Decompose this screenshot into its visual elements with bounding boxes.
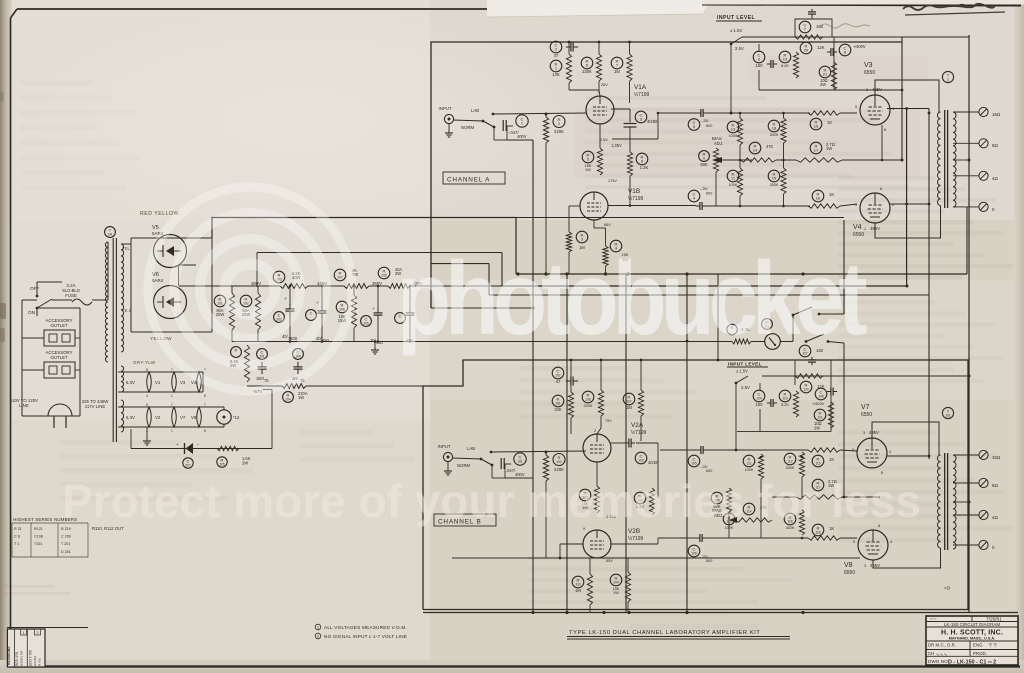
svg-text:7/26/61: 7/26/61 xyxy=(986,617,1002,622)
svg-text:1M: 1M xyxy=(614,69,620,74)
svg-text:106: 106 xyxy=(585,398,591,402)
svg-text:ECO # 766: ECO # 766 xyxy=(29,650,33,666)
svg-text:485V: 485V xyxy=(870,563,880,568)
cap C6 150 xyxy=(753,51,765,63)
bias rectifier diode xyxy=(184,443,186,454)
svg-text:208: 208 xyxy=(381,274,387,278)
svg-text:14: 14 xyxy=(753,148,758,153)
T101 secondary taps xyxy=(953,454,979,456)
V3 screen wire xyxy=(887,108,929,110)
resistor R7 1M xyxy=(611,57,623,69)
svg-text:206: 206 xyxy=(339,308,345,312)
resistor R102 220K xyxy=(543,455,548,481)
input level switch A xyxy=(730,43,733,46)
svg-text:102: 102 xyxy=(555,374,561,378)
resistor R204 220A 1W xyxy=(282,384,306,389)
V3 plate wire to T1 xyxy=(875,80,939,112)
svg-text:15: 15 xyxy=(814,124,819,129)
output terminal B 16 ohm xyxy=(979,450,988,459)
svg-text:600: 600 xyxy=(706,469,712,473)
svg-text:4/250: 4/250 xyxy=(647,119,658,124)
transformer top circled ref xyxy=(105,227,116,238)
output terminal 0 xyxy=(979,202,988,211)
capacitor C207 xyxy=(183,458,193,468)
bias network verticals xyxy=(739,145,741,168)
output terminal 8 ohm xyxy=(979,139,988,148)
svg-text:YE 2: YE 2 xyxy=(122,308,132,313)
svg-text:7: 7 xyxy=(171,403,173,407)
svg-text:2W: 2W xyxy=(242,461,248,466)
svg-text:75: 75 xyxy=(264,378,269,383)
vertical x718 link xyxy=(717,274,719,360)
svg-text:47K: 47K xyxy=(766,144,774,149)
B+ step down to cathode bus xyxy=(515,218,517,275)
svg-text:1K: 1K xyxy=(829,457,834,462)
svg-text:15: 15 xyxy=(772,176,777,181)
svg-text:85V: 85V xyxy=(604,223,611,227)
svg-text:Protect more of your memories: Protect more of your memories for less xyxy=(62,475,921,527)
svg-text:117V LINE: 117V LINE xyxy=(85,404,106,409)
heater ground xyxy=(146,427,148,438)
svg-text:INPUT LEVEL: INPUT LEVEL xyxy=(717,15,756,21)
resistor R21 10A 2W xyxy=(819,66,831,78)
svg-text:100K: 100K xyxy=(745,468,754,472)
svg-text:207: 207 xyxy=(185,464,191,468)
ground-meter bus y341 xyxy=(232,341,732,343)
svg-text:9: 9 xyxy=(583,527,585,531)
svg-text:202: 202 xyxy=(243,302,249,306)
svg-text:220K: 220K xyxy=(582,69,592,74)
resistor R? 1M B xyxy=(572,576,584,588)
coupling cap C105 .25/600 xyxy=(700,446,702,454)
tube V1B half 7199 xyxy=(580,192,608,220)
wire 445V xyxy=(308,285,344,287)
schematic sheet top edge line xyxy=(702,5,1021,6)
bias arrow wire xyxy=(716,159,752,161)
svg-text:R 219: R 219 xyxy=(61,527,71,531)
svg-text:1W: 1W xyxy=(585,168,591,172)
resistor R101 33K xyxy=(552,395,564,407)
svg-text:1M: 1M xyxy=(575,588,581,593)
svg-text:3: 3 xyxy=(863,431,865,435)
svg-text:OUTLET: OUTLET xyxy=(51,355,68,360)
resistor R20 12K xyxy=(795,35,823,39)
svg-text:19: 19 xyxy=(783,57,788,62)
svg-text:6550: 6550 xyxy=(853,232,864,238)
rectifier box wiring xyxy=(121,238,131,244)
resistor R208 40A 2W xyxy=(378,267,390,279)
svg-text:2: 2 xyxy=(594,429,596,433)
T101 center tap wire xyxy=(953,501,969,503)
svg-text:½7199: ½7199 xyxy=(628,195,644,202)
heater row 1 loop 6.3V V1 V3 V4 xyxy=(118,371,203,373)
revisions block xyxy=(7,627,88,629)
svg-text:4/250: 4/250 xyxy=(648,460,659,465)
svg-text:103: 103 xyxy=(638,459,644,463)
svg-text:7500: 7500 xyxy=(288,336,298,341)
resistor R118 330K xyxy=(784,513,796,525)
svg-text:116: 116 xyxy=(815,531,820,535)
svg-text:17: 17 xyxy=(814,148,819,153)
svg-text:ADJ.: ADJ. xyxy=(714,141,723,146)
bias wire -67V xyxy=(247,385,282,387)
svg-text:6550: 6550 xyxy=(844,570,855,576)
cathode bus y274 xyxy=(516,273,967,275)
svg-text:108: 108 xyxy=(818,395,824,399)
cap C7 150 xyxy=(799,21,811,33)
resistor R106 220K xyxy=(582,391,594,403)
bus wire to T1 zero tap xyxy=(966,207,968,274)
svg-text:450: 450 xyxy=(322,338,330,343)
svg-text:2W: 2W xyxy=(814,426,820,431)
svg-text:+⁄400V: +⁄400V xyxy=(853,44,866,49)
svg-text:2A: 2A xyxy=(108,232,113,237)
svg-text:115: 115 xyxy=(815,462,820,466)
svg-text:C 8: C 8 xyxy=(14,535,20,539)
pink stamp ghost xyxy=(575,108,920,178)
cap C8 +/400V xyxy=(830,48,832,56)
T1 center tap wire xyxy=(953,159,969,161)
grid stopper R116 1K V8 xyxy=(812,524,824,536)
svg-text:33K: 33K xyxy=(554,407,562,412)
svg-text:4: 4 xyxy=(889,450,891,454)
svg-text:7: 7 xyxy=(597,91,599,95)
left scan edge xyxy=(0,0,12,673)
input level wire B xyxy=(762,375,969,377)
capacitor C102 47 xyxy=(552,367,564,379)
heater lens V7 xyxy=(172,407,177,427)
T101 primary coil xyxy=(938,455,941,548)
svg-text:3: 3 xyxy=(866,88,868,92)
svg-text:8.2K: 8.2K xyxy=(781,403,789,407)
resistor R117 2.7A 1W xyxy=(812,479,824,491)
svg-text:16: 16 xyxy=(816,196,821,201)
svg-text:207: 207 xyxy=(337,276,343,280)
svg-text:V7: V7 xyxy=(861,404,870,411)
meter M xyxy=(765,334,781,350)
cap C104 150 xyxy=(753,390,765,402)
svg-text:1K: 1K xyxy=(829,192,834,197)
cap C108B +/400V xyxy=(830,388,832,396)
svg-text:485V: 485V xyxy=(872,87,882,92)
V3 cathode wire xyxy=(881,125,883,160)
svg-text:50K: 50K xyxy=(700,162,708,167)
resistor R104 15K 1W xyxy=(610,574,622,586)
svg-text:220K: 220K xyxy=(584,404,593,408)
svg-text:C108: C108 xyxy=(34,535,43,539)
svg-text:LINE: LINE xyxy=(19,403,29,408)
coupling cap C4 .25/600 xyxy=(699,202,701,210)
svg-text:+⁄400V: +⁄400V xyxy=(812,401,825,406)
B+ vertical x533 xyxy=(532,140,534,612)
svg-text:8Ω: 8Ω xyxy=(992,483,999,488)
resistor R18 330K xyxy=(768,120,780,132)
input level wire A xyxy=(742,36,969,38)
input level switch B xyxy=(735,382,738,385)
wire 330V to channel B feed xyxy=(410,285,567,287)
svg-text:〒〒: 〒〒 xyxy=(988,643,997,648)
V4 plate wire to T1 xyxy=(875,206,941,239)
svg-text:2: 2 xyxy=(36,631,38,635)
svg-text:101: 101 xyxy=(945,414,951,418)
note 2 no signal input xyxy=(315,633,321,639)
resistor R113 100K xyxy=(723,513,735,525)
resistor R2 220K xyxy=(543,117,548,143)
svg-text:101: 101 xyxy=(555,402,561,406)
svg-text:6.3V: 6.3V xyxy=(126,380,135,385)
svg-text:1M: 1M xyxy=(626,405,632,410)
svg-text:220K: 220K xyxy=(554,129,564,134)
svg-text:V2B: V2B xyxy=(628,528,640,535)
svg-text:V8: V8 xyxy=(844,562,853,569)
output terminal B 0 xyxy=(979,540,988,549)
bus step y252 to y286 xyxy=(257,252,502,254)
svg-text:REVISIONS: REVISIONS xyxy=(7,646,11,665)
heater lens V1 xyxy=(147,372,152,392)
bias pot R9 50K xyxy=(699,151,710,162)
svg-text:1.35V: 1.35V xyxy=(611,143,622,148)
svg-text:150: 150 xyxy=(755,402,763,407)
input level wiring A xyxy=(758,44,760,52)
svg-text:220K: 220K xyxy=(554,467,564,472)
svg-text:-.25/: -.25/ xyxy=(701,119,710,123)
resistor R119 8.2K xyxy=(779,390,791,402)
svg-text:+: + xyxy=(284,296,287,301)
photobucket text watermark xyxy=(397,241,867,356)
svg-text:1.2K: 1.2K xyxy=(640,165,649,170)
svg-text:205: 205 xyxy=(363,322,369,326)
resistor R114 47K xyxy=(743,503,755,515)
bus line y308 xyxy=(431,307,533,309)
output transformer T101 ref xyxy=(942,407,953,418)
resistor R207 4K 7W xyxy=(334,269,346,281)
svg-text:≈〜: ≈〜 xyxy=(930,616,937,621)
page left border xyxy=(10,18,12,629)
svg-text:5: 5 xyxy=(146,403,148,407)
svg-text:MAYNARD, MASS., U.S.A.: MAYNARD, MASS., U.S.A. xyxy=(949,637,995,641)
svg-text:201: 201 xyxy=(259,355,265,359)
svg-text:102: 102 xyxy=(556,460,562,464)
svg-text:13K: 13K xyxy=(552,72,560,77)
T101 secondary coil xyxy=(953,455,956,549)
V1B wires xyxy=(569,205,580,207)
svg-text:T 1: T 1 xyxy=(14,542,19,546)
capacitor C2 47 xyxy=(550,41,562,53)
handwriting on overlay xyxy=(903,4,995,10)
svg-text:7: 7 xyxy=(171,368,173,372)
svg-text:20W: 20W xyxy=(216,312,225,317)
bus step y264 to y295 xyxy=(431,263,489,265)
svg-text:8/10/61 DR: 8/10/61 DR xyxy=(20,650,24,666)
svg-text:4: 4 xyxy=(892,107,894,111)
wire C1 loop to bus vertical xyxy=(507,139,533,141)
power transformer core xyxy=(112,238,114,442)
grid bus wire A xyxy=(493,113,586,114)
V7 plate wire to T101 xyxy=(872,422,939,455)
B+ chain wire 480V xyxy=(179,285,281,287)
svg-text:V4: V4 xyxy=(853,224,862,231)
bottom scan edge xyxy=(0,660,1024,673)
power transformer HV secondary coil xyxy=(121,244,124,352)
resistor R8 1.2K xyxy=(636,153,648,165)
svg-text:25V: 25V xyxy=(601,83,608,87)
svg-text:T 201: T 201 xyxy=(61,542,70,546)
filter cap C205 20/450 xyxy=(361,316,372,327)
svg-text:-.25/: -.25/ xyxy=(700,187,709,191)
svg-text:V3: V3 xyxy=(864,62,873,69)
svg-text:6550: 6550 xyxy=(864,70,875,76)
svg-text:7: 7 xyxy=(204,403,206,407)
input level wiring B xyxy=(759,383,761,391)
coupling cap C5 .25/600 xyxy=(700,109,702,117)
svg-text:D - LK-150 - C1 ═ 2: D - LK-150 - C1 ═ 2 xyxy=(948,659,996,665)
vertical x844 feedback xyxy=(843,220,845,314)
svg-text:104: 104 xyxy=(756,397,762,401)
output terminal 4 ohm xyxy=(979,171,988,180)
input jack A ground xyxy=(448,124,450,130)
wire C101 loop xyxy=(505,477,533,479)
B+ vertical x626 xyxy=(625,274,627,612)
power transformer heater winding 1 xyxy=(121,366,124,392)
resistor R17 2.7A 1W xyxy=(810,142,822,154)
svg-text:ENG: ENG xyxy=(973,643,983,648)
svg-text:480V: 480V xyxy=(251,281,261,286)
page top border xyxy=(17,8,487,10)
photobucket lens watermark xyxy=(148,187,352,391)
heater lens V8 xyxy=(197,407,202,427)
filter cap C206 450 xyxy=(395,313,406,324)
svg-text:V8: V8 xyxy=(191,415,197,420)
lower switch on meter line xyxy=(805,340,808,343)
wire AC to transformer xyxy=(92,299,108,301)
T1 secondary coil xyxy=(953,112,956,207)
filter cap 40/450 xyxy=(306,310,317,321)
svg-text:2.5V: 2.5V xyxy=(600,138,608,142)
feedback vertical to bias rail B xyxy=(843,343,845,497)
T1 primary coil xyxy=(938,112,941,206)
resistor R111 100K xyxy=(743,455,755,467)
T1 core xyxy=(944,110,946,208)
svg-text:8: 8 xyxy=(880,187,882,191)
svg-text:20: 20 xyxy=(804,48,809,53)
svg-text:CH: CH xyxy=(928,651,934,656)
left AC bus wires xyxy=(21,300,23,416)
grid stopper R16 1K V4 xyxy=(812,190,824,202)
resistor R3 1M xyxy=(576,231,588,243)
svg-text:75V: 75V xyxy=(605,419,612,423)
V8 plate wire to T101 xyxy=(873,548,941,568)
bias pot R109 50K xyxy=(711,492,723,504)
svg-text:D 201: D 201 xyxy=(61,550,71,554)
V7 screen wire xyxy=(887,455,929,457)
svg-text:105: 105 xyxy=(691,462,697,466)
svg-text:V1A: V1A xyxy=(634,84,647,91)
svg-text:R: R xyxy=(235,347,238,352)
channel B bottom bus junction dots xyxy=(602,611,605,614)
svg-text:400V: 400V xyxy=(517,134,527,139)
svg-text:½7199: ½7199 xyxy=(631,429,647,436)
svg-text:5: 5 xyxy=(855,105,857,109)
svg-text:V1: V1 xyxy=(155,380,161,385)
svg-text:1: 1 xyxy=(22,631,24,635)
output terminal 16 ohm xyxy=(979,107,988,116)
svg-text:RGD 4/76: RGD 4/76 xyxy=(15,652,19,666)
bias B verticals xyxy=(760,479,762,497)
resistor R203 6.2K 10W xyxy=(273,271,285,283)
svg-text:R121: R121 xyxy=(34,527,43,531)
bleed-through text ghosts xyxy=(585,96,909,189)
svg-text:5AR4: 5AR4 xyxy=(152,278,164,283)
svg-text:101: 101 xyxy=(517,460,523,464)
heater row 2 loop 6.3V V2 V7 V8 xyxy=(118,406,216,408)
resistor R120 12K xyxy=(795,374,823,378)
svg-text:330K: 330K xyxy=(770,133,779,137)
svg-text:150: 150 xyxy=(755,63,763,68)
pilot lamp xyxy=(217,410,231,424)
heater lens V4 xyxy=(197,372,202,392)
tube V1A half 7199 xyxy=(586,96,614,124)
svg-text:INPUT: INPUT xyxy=(439,106,452,111)
input level box B xyxy=(795,360,831,385)
svg-text:DR M.C., D.R.: DR M.C., D.R. xyxy=(928,643,956,648)
svg-text:330K: 330K xyxy=(770,183,779,187)
B+ vertical x567 xyxy=(566,274,568,612)
svg-text:1: 1 xyxy=(171,429,173,433)
svg-text:PROD.: PROD. xyxy=(973,651,987,656)
coupling cap C103 4/250 xyxy=(611,442,626,444)
svg-text:T101: T101 xyxy=(34,542,42,546)
grid stopper R115 1K V7 xyxy=(812,455,824,467)
svg-text:3: 3 xyxy=(864,564,866,568)
heater lens V3 xyxy=(172,372,177,392)
bias filter cap C204 40/75 xyxy=(293,349,304,360)
svg-text:600: 600 xyxy=(706,192,712,196)
V3 screen drop x906 xyxy=(906,109,908,287)
tube V2A half 7199 xyxy=(583,434,611,462)
coupling cap C106 .25/600 xyxy=(699,534,701,542)
svg-text:5: 5 xyxy=(852,448,854,452)
wire 360V xyxy=(369,285,388,287)
V2B wires xyxy=(560,543,583,545)
svg-text:5: 5 xyxy=(853,540,855,544)
svg-text:4: 4 xyxy=(146,394,148,398)
svg-text:INPUT: INPUT xyxy=(438,444,451,449)
resistor R14 47K xyxy=(749,142,761,154)
resistor R6 220K xyxy=(581,57,593,69)
svg-text:4Ω: 4Ω xyxy=(992,515,999,520)
svg-text:4Ω: 4Ω xyxy=(992,176,999,181)
title block frame xyxy=(926,616,1018,665)
grid bus wire B xyxy=(491,451,586,452)
svg-text:8.2K: 8.2K xyxy=(781,64,789,68)
svg-text:V2: V2 xyxy=(155,415,161,420)
svg-text:INPUT LEVEL: INPUT LEVEL xyxy=(728,362,762,367)
svg-text:12K: 12K xyxy=(817,45,825,50)
svg-text:4: 4 xyxy=(890,540,892,544)
svg-text:2.5V: 2.5V xyxy=(741,385,750,390)
svg-text:NO SIGNAL INPUT ε 1-7 VOLT LIN: NO SIGNAL INPUT ε 1-7 VOLT LINE xyxy=(324,634,407,639)
channel B top bus verticals xyxy=(570,360,572,392)
bias wire to channel boxes xyxy=(306,385,423,387)
svg-text:450: 450 xyxy=(376,340,384,345)
resistor R4 15K 1W xyxy=(610,240,622,252)
grid stopper R15 1K V3 xyxy=(810,118,822,130)
cathode bus B xyxy=(452,557,860,559)
input level box A xyxy=(795,19,832,37)
svg-text:FUSE: FUSE xyxy=(65,293,77,298)
resistor R15b 330K xyxy=(768,170,780,182)
heater lens V2 xyxy=(147,407,152,427)
